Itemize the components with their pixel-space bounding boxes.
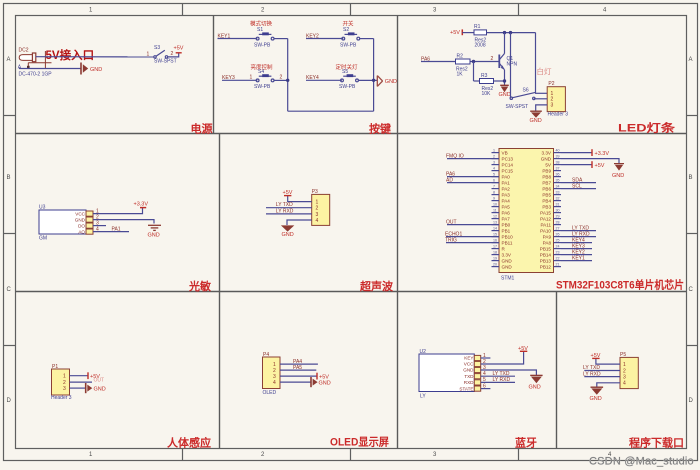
- wire from switch to +5V: [168, 53, 179, 57]
- switch S3 SW-SPST symbol: [154, 50, 168, 58]
- wire U2 pin6 stub: [481, 388, 491, 390]
- MCU left pin stubs: [492, 153, 500, 267]
- left band tick 2: [4, 233, 16, 235]
- svg-text:+5V: +5V: [174, 46, 184, 52]
- svg-text:SW-PB: SW-PB: [339, 84, 356, 90]
- junction switch rail: [509, 31, 512, 34]
- wire P1 pin3: [70, 387, 86, 389]
- svg-text:S5: S5: [342, 69, 348, 75]
- connector DC2 barrel jack body: [19, 53, 36, 62]
- svg-text:SW-PB: SW-PB: [254, 84, 271, 90]
- wire PA6: [447, 176, 499, 178]
- svg-text:3: 3: [63, 386, 66, 392]
- power symbol +5V dl: [592, 357, 599, 359]
- svg-text:27: 27: [556, 227, 560, 231]
- svg-text:GND: GND: [502, 258, 513, 263]
- transistor Q1: [499, 54, 504, 70]
- svg-text:1: 1: [623, 362, 626, 368]
- junction R2 R3: [472, 60, 475, 63]
- svg-text:GND: GND: [502, 264, 513, 269]
- svg-text:超声波: 超声波: [359, 279, 394, 293]
- LED SECTION: [421, 24, 568, 124]
- button S5 symbol: [341, 74, 359, 82]
- wire SDA mcu: [561, 182, 596, 184]
- svg-text:PB4: PB4: [542, 198, 551, 203]
- SECTION LABELS: [167, 121, 684, 450]
- svg-text:PA11: PA11: [540, 222, 551, 227]
- row divider line 2: [15, 291, 686, 293]
- svg-text:29: 29: [556, 215, 560, 219]
- svg-text:AO: AO: [78, 229, 85, 234]
- junction collector rail: [503, 31, 506, 34]
- svg-text:PB8: PB8: [542, 174, 551, 179]
- sensor U3 body: [39, 210, 86, 234]
- BT SECTION: [419, 346, 543, 400]
- svg-text:GND: GND: [75, 217, 86, 222]
- left band tick 3: [4, 345, 16, 347]
- svg-text:PB10: PB10: [502, 234, 514, 239]
- svg-text:5V: 5V: [545, 162, 552, 167]
- STM32 SECTION: [445, 149, 624, 282]
- svg-text:DC-470-2 1GP: DC-470-2 1GP: [19, 72, 53, 78]
- DL SECTION: [583, 352, 638, 402]
- wire VCC to +3.3V: [93, 208, 143, 214]
- svg-text:OUT: OUT: [94, 377, 105, 383]
- wire P3 pin4 to gnd: [287, 220, 312, 225]
- svg-text:19: 19: [493, 257, 497, 261]
- header P4 body: [263, 357, 281, 389]
- resistor R1 body: [474, 30, 487, 35]
- svg-text:33: 33: [556, 191, 560, 195]
- svg-text:B: B: [7, 175, 11, 181]
- wire PA6 to R2: [421, 61, 456, 63]
- svg-text:3.3V: 3.3V: [542, 150, 552, 155]
- svg-text:LED灯条: LED灯条: [618, 121, 676, 135]
- svg-text:D: D: [7, 398, 12, 404]
- svg-text:NPN: NPN: [507, 62, 518, 68]
- wire KEY3 mcu: [561, 248, 592, 250]
- power symbol +5V mcu: [591, 161, 593, 168]
- svg-text:28: 28: [556, 221, 560, 225]
- svg-text:人体感应: 人体感应: [167, 436, 211, 450]
- junction at S4 right: [286, 79, 289, 82]
- svg-text:SW-SPST: SW-SPST: [154, 59, 177, 65]
- svg-text:KEY: KEY: [464, 356, 473, 361]
- svg-text:PA7: PA7: [502, 216, 511, 221]
- svg-text:R1: R1: [474, 24, 481, 30]
- power symbol +5V bt: [520, 350, 527, 352]
- svg-text:PA4: PA4: [502, 198, 511, 203]
- svg-text:PB6: PB6: [542, 186, 551, 191]
- resistor R3 body: [480, 79, 494, 84]
- wire KEY4: [306, 79, 342, 81]
- svg-text:PA3: PA3: [502, 192, 511, 197]
- svg-text:C: C: [7, 287, 12, 293]
- header P5 body: [620, 357, 638, 388]
- svg-text:按键: 按键: [369, 121, 392, 135]
- svg-text:PB5: PB5: [542, 192, 551, 197]
- svg-text:VCC: VCC: [464, 362, 474, 367]
- svg-text:PB1: PB1: [502, 228, 511, 233]
- svg-text:PC14: PC14: [502, 162, 514, 167]
- svg-text:DO: DO: [78, 223, 85, 228]
- svg-text:STATE: STATE: [459, 386, 473, 391]
- svg-text:2: 2: [316, 206, 319, 212]
- svg-text:PA8: PA8: [543, 240, 552, 245]
- wire switch to P2 pin1: [535, 92, 547, 94]
- svg-text:GND: GND: [282, 232, 294, 238]
- svg-text:10K: 10K: [482, 91, 492, 97]
- svg-text:3: 3: [316, 212, 319, 218]
- right band tick 1: [686, 115, 698, 117]
- button S1 symbol: [256, 32, 274, 40]
- svg-text:S3: S3: [154, 45, 160, 51]
- wire DO stub: [93, 225, 106, 227]
- svg-text:S6: S6: [523, 88, 529, 94]
- svg-text:30: 30: [556, 209, 560, 213]
- wire U2 pin4: [481, 375, 515, 377]
- svg-text:3.3V: 3.3V: [502, 252, 512, 257]
- svg-text:CSDN @Mac_studio: CSDN @Mac_studio: [589, 456, 694, 468]
- svg-text:PB12: PB12: [540, 264, 552, 269]
- svg-text:+3.3V: +3.3V: [595, 151, 610, 157]
- svg-text:电源: 电源: [191, 121, 213, 135]
- wire SCL mcu: [561, 188, 596, 190]
- svg-text:GND: GND: [541, 156, 552, 161]
- wire LY TXD mcu: [561, 230, 596, 232]
- wire 3.3V right: [561, 152, 592, 154]
- svg-text:PB14: PB14: [540, 252, 552, 257]
- svg-text:PB9: PB9: [542, 168, 551, 173]
- svg-text:+5V: +5V: [283, 190, 293, 196]
- svg-text:STM32F103C8T6单片机芯片: STM32F103C8T6单片机芯片: [556, 278, 684, 292]
- switch S6 symbol: [510, 92, 535, 99]
- wire P1 pin2: [70, 381, 93, 383]
- wire S1 right: [274, 38, 288, 40]
- WATERMARK: [589, 456, 694, 468]
- svg-text:1K: 1K: [457, 72, 464, 78]
- MCU left pin numbers: [493, 149, 497, 267]
- svg-text:20: 20: [493, 263, 497, 267]
- svg-text:32: 32: [556, 197, 560, 201]
- svg-text:GND: GND: [148, 233, 160, 239]
- wire P4 pin3 to +5V: [280, 375, 317, 377]
- svg-text:光敏: 光敏: [188, 279, 212, 293]
- svg-text:STM1: STM1: [501, 276, 515, 282]
- ULTRA SECTION: [266, 189, 330, 238]
- svg-text:9: 9: [493, 197, 495, 201]
- svg-text:10: 10: [493, 203, 497, 207]
- wire KEY2 mcu: [561, 254, 592, 256]
- MCU right pin numbers: [556, 149, 560, 267]
- wire P4 pin4 to gnd: [280, 381, 311, 383]
- main 5V wire: [36, 56, 155, 58]
- button S2 symbol: [342, 32, 360, 40]
- svg-text:A: A: [7, 57, 11, 63]
- svg-text:35: 35: [556, 179, 560, 183]
- header P3 body: [312, 194, 330, 225]
- svg-text:程序下载口: 程序下载口: [629, 436, 684, 450]
- ground symbol gm: [148, 225, 161, 230]
- svg-text:3: 3: [493, 161, 495, 165]
- svg-text:PA6: PA6: [502, 210, 511, 215]
- svg-text:2008: 2008: [475, 43, 486, 49]
- svg-text:22: 22: [556, 257, 560, 261]
- svg-text:2: 2: [623, 368, 626, 374]
- collector wire: [504, 33, 506, 54]
- svg-text:17: 17: [493, 245, 497, 249]
- svg-text:14: 14: [493, 227, 497, 231]
- wire P4 pin1: [280, 363, 318, 365]
- ground symbol body: [86, 383, 93, 393]
- svg-text:8: 8: [493, 191, 495, 195]
- svg-text:RXD: RXD: [464, 380, 474, 385]
- row divider line 1: [15, 133, 686, 135]
- ground symbol GND: [81, 63, 88, 75]
- bottom connecting wire: [288, 110, 374, 112]
- wire P5 pin4 to gnd: [597, 383, 620, 387]
- svg-text:LY: LY: [420, 393, 426, 399]
- svg-text:PC13: PC13: [502, 156, 514, 161]
- wire KEY2: [306, 38, 343, 40]
- button S4 symbol: [256, 74, 274, 82]
- svg-text:25: 25: [556, 239, 560, 243]
- power symbol +5V oled: [316, 373, 318, 380]
- junction emitter R3: [503, 79, 506, 82]
- svg-text:PB3: PB3: [542, 204, 551, 209]
- svg-text:OLED显示屏: OLED显示屏: [330, 436, 389, 449]
- wire FMQ IO: [447, 158, 499, 160]
- svg-text:SCL: SCL: [572, 183, 582, 189]
- svg-text:PA1: PA1: [502, 180, 511, 185]
- power symbol +3.3V gm: [140, 207, 146, 209]
- svg-text:4: 4: [316, 218, 319, 224]
- wire P5 pin2: [584, 370, 620, 372]
- right band tick 2: [686, 233, 698, 235]
- wire +5V to R1: [462, 32, 474, 34]
- svg-text:D: D: [689, 398, 694, 404]
- ground symbol dl: [591, 387, 604, 395]
- header P2 body: [547, 87, 565, 112]
- svg-text:2: 2: [280, 75, 283, 81]
- svg-text:3: 3: [623, 375, 626, 381]
- svg-text:B: B: [689, 175, 693, 181]
- wire KEY4 mcu: [561, 242, 592, 244]
- svg-text:39: 39: [556, 155, 560, 159]
- svg-text:4: 4: [623, 381, 626, 387]
- left band tick 1: [4, 115, 16, 117]
- ground symbol P2: [530, 111, 542, 118]
- MCU left pin names: [502, 150, 514, 269]
- wire R2 to base: [471, 61, 500, 63]
- svg-text:AD: AD: [446, 177, 453, 183]
- svg-text:S4: S4: [258, 69, 264, 75]
- MCU right pin stubs: [554, 153, 562, 267]
- wire into R3: [474, 80, 480, 82]
- svg-text:37: 37: [556, 167, 560, 171]
- wire ECHO1: [446, 236, 499, 238]
- svg-text:PA10: PA10: [540, 228, 551, 233]
- wire P1 pin1 to +5V: [70, 375, 89, 377]
- wire GND right: [561, 159, 619, 164]
- power symbol bar +5V led: [461, 29, 463, 35]
- svg-text:SW-PB: SW-PB: [254, 42, 271, 48]
- vertical wire S2 to S5: [373, 39, 375, 112]
- svg-text:PA9: PA9: [543, 234, 552, 239]
- svg-text:38: 38: [556, 161, 560, 165]
- svg-text:+5V: +5V: [595, 163, 605, 169]
- svg-text:2: 2: [171, 51, 174, 57]
- header P1 body: [52, 369, 70, 395]
- svg-text:31: 31: [556, 203, 560, 207]
- svg-text:DC2: DC2: [19, 48, 29, 54]
- svg-text:VCC: VCC: [75, 211, 85, 216]
- column divider top row: [213, 15, 215, 134]
- top rail wire: [487, 32, 536, 34]
- power symbol +5V ultra: [284, 195, 291, 197]
- svg-text:4: 4: [493, 167, 495, 171]
- svg-text:FMQ IO: FMQ IO: [446, 153, 464, 159]
- svg-text:P2: P2: [548, 81, 554, 87]
- svg-text:SW-SPST: SW-SPST: [506, 104, 529, 110]
- top band tick 1: [182, 4, 184, 16]
- OLED SECTION: [263, 352, 331, 396]
- svg-text:OUT: OUT: [446, 219, 457, 225]
- svg-text:+5V: +5V: [319, 374, 329, 380]
- svg-text:7: 7: [493, 185, 495, 189]
- svg-text:S1: S1: [257, 27, 263, 33]
- svg-text:21: 21: [556, 263, 560, 267]
- svg-text:24: 24: [556, 245, 560, 249]
- wire U2 pin2 to +5V: [481, 352, 524, 364]
- svg-text:GND: GND: [530, 118, 542, 124]
- header P2 pin3 wire: [536, 105, 548, 111]
- svg-text:40: 40: [556, 149, 560, 153]
- svg-text:+3.3V: +3.3V: [134, 202, 149, 208]
- svg-text:TXD: TXD: [464, 374, 474, 379]
- resistor R2 body: [456, 59, 471, 64]
- svg-text:GND: GND: [612, 173, 624, 179]
- header P2 pin2 wire: [534, 98, 547, 100]
- svg-text:1: 1: [493, 149, 495, 153]
- emitter wire down: [504, 70, 506, 85]
- svg-text:2: 2: [491, 56, 494, 62]
- ground symbol keys: [377, 76, 382, 87]
- svg-text:12: 12: [493, 215, 497, 219]
- wire U2 pin1 stub: [481, 357, 491, 359]
- svg-text:PB7: PB7: [542, 180, 551, 185]
- svg-text:GND: GND: [319, 381, 331, 387]
- svg-text:PA5: PA5: [502, 204, 511, 209]
- power symbol +5V: [176, 52, 182, 54]
- wire P3 pin3: [266, 213, 312, 215]
- svg-text:11: 11: [493, 209, 497, 213]
- svg-text:18: 18: [493, 251, 497, 255]
- svg-text:PB11: PB11: [502, 240, 513, 245]
- svg-text:5V接入口: 5V接入口: [46, 48, 95, 62]
- svg-text:S2: S2: [343, 27, 349, 33]
- svg-text:GND: GND: [463, 368, 474, 373]
- svg-text:1: 1: [63, 374, 66, 380]
- column divider bottom row: [556, 292, 558, 449]
- svg-text:GND: GND: [529, 384, 541, 390]
- wire U2 pin3 to gnd: [481, 370, 537, 375]
- wire P5 pin3: [584, 376, 620, 378]
- junction at S5 right: [372, 79, 375, 82]
- wire P4 pin2: [280, 369, 316, 371]
- wire R3 to emitter node: [494, 80, 505, 82]
- svg-text:PA15: PA15: [540, 210, 551, 215]
- bottom band tick 2: [350, 449, 352, 461]
- connector DC2 pin 2 stub: [28, 51, 51, 69]
- column divider full height: [397, 15, 399, 449]
- wire P3 pin1 to +5V: [288, 196, 312, 202]
- POWER SECTION: [18, 45, 184, 78]
- wire down to R3: [473, 62, 475, 82]
- svg-text:VB: VB: [502, 150, 508, 155]
- svg-text:GND: GND: [385, 79, 397, 85]
- svg-text:蓝牙: 蓝牙: [515, 436, 537, 450]
- wire S5 right to gnd: [359, 79, 378, 81]
- svg-text:+5V: +5V: [518, 346, 528, 352]
- svg-text:PB13: PB13: [540, 258, 552, 263]
- top band tick 3: [518, 4, 520, 16]
- svg-text:SW-PB: SW-PB: [340, 42, 357, 48]
- wire TRIG: [446, 242, 499, 244]
- ground symbol oled: [311, 377, 318, 387]
- wire rail to switch left: [510, 33, 512, 99]
- svg-text:3: 3: [551, 103, 554, 109]
- svg-text:PB0: PB0: [502, 222, 511, 227]
- GM SECTION: [39, 202, 161, 242]
- junction on ground wire: [27, 66, 30, 69]
- svg-text:36: 36: [556, 173, 560, 177]
- wire P5 pin1 to +5V: [596, 359, 620, 364]
- svg-text:1: 1: [147, 51, 150, 57]
- svg-text:+5V: +5V: [450, 30, 460, 36]
- sensor U3 pin boxes: [86, 211, 93, 234]
- svg-text:+5V: +5V: [591, 353, 601, 359]
- wire 5V right: [561, 164, 592, 166]
- bottom band tick 3: [518, 449, 520, 461]
- wire GND gm: [93, 220, 154, 224]
- wire LY RXD mcu: [561, 236, 596, 238]
- bottom band tick 1: [182, 449, 184, 461]
- wire KEY1: [218, 38, 258, 40]
- BODY SECTION: [51, 364, 106, 401]
- ground symbol ultra: [281, 225, 294, 231]
- ground symbol under Q1: [500, 85, 509, 92]
- wire AO PA1: [93, 231, 129, 233]
- vertical wire S1 to S4: [287, 39, 289, 112]
- wire KEY1 mcu: [561, 260, 592, 262]
- wire to ground: [19, 68, 81, 70]
- svg-text:GND: GND: [499, 92, 511, 98]
- wire S2 right: [360, 38, 374, 40]
- svg-text:PA0: PA0: [502, 174, 511, 179]
- svg-text:4: 4: [273, 380, 276, 386]
- svg-text:PA12: PA12: [540, 216, 551, 221]
- svg-text:34: 34: [556, 185, 560, 189]
- top band tick 2: [350, 4, 352, 16]
- ground symbol mcu: [614, 164, 624, 171]
- module U2 pin boxes: [474, 355, 480, 391]
- svg-text:26: 26: [556, 233, 560, 237]
- wire U2 pin5: [481, 381, 515, 383]
- svg-text:1: 1: [316, 200, 319, 206]
- wire rail down 白灯: [535, 33, 537, 93]
- right band tick 3: [686, 345, 698, 347]
